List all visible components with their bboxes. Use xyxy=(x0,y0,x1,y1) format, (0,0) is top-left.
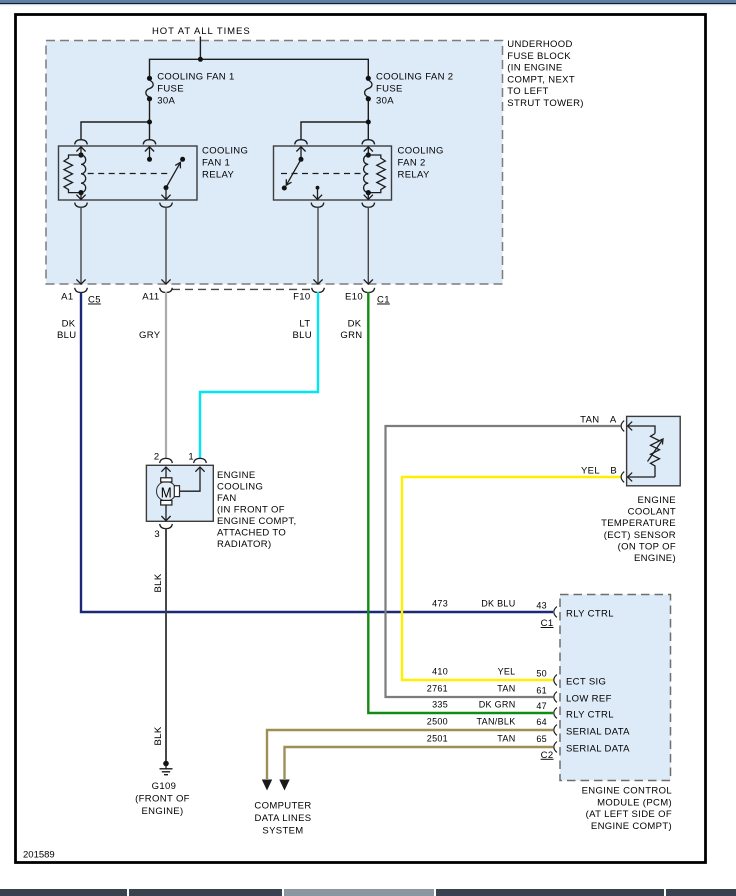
relay K2 mechanical link (dashed) xyxy=(281,173,364,175)
PCM pin 61 connector xyxy=(554,692,557,703)
svg-text:GRY: GRY xyxy=(139,330,161,341)
svg-text:43: 43 xyxy=(536,601,547,611)
svg-text:C1: C1 xyxy=(377,295,390,306)
wire 450 GRY: A11 to fan pin 2 xyxy=(165,292,167,458)
svg-text:30A: 30A xyxy=(376,96,394,107)
relay K1 mechanical link (dashed) xyxy=(88,173,170,175)
ECT sensor box xyxy=(627,416,681,485)
svg-text:2501: 2501 xyxy=(427,734,448,744)
svg-text:B: B xyxy=(610,466,617,477)
relay K1 switch xyxy=(180,157,185,162)
svg-text:COMPUTER: COMPUTER xyxy=(254,801,311,812)
svg-text:A1: A1 xyxy=(61,292,73,303)
PCM pin 47 connector xyxy=(554,708,557,719)
fuse F2: COOLING FAN 2 FUSE 30A xyxy=(366,76,371,81)
fuse block inner lower dashed segment xyxy=(172,288,312,290)
svg-text:LT: LT xyxy=(299,319,310,330)
svg-text:(IN ENGINE: (IN ENGINE xyxy=(507,63,562,74)
svg-text:2500: 2500 xyxy=(427,717,448,727)
svg-text:FAN: FAN xyxy=(217,493,237,504)
svg-text:30A: 30A xyxy=(157,96,175,107)
ECT sensor pin B connector xyxy=(621,472,624,483)
svg-text:SERIAL DATA: SERIAL DATA xyxy=(566,727,630,738)
svg-text:C2: C2 xyxy=(541,750,554,761)
svg-text:RLY CTRL: RLY CTRL xyxy=(566,710,614,721)
relay K2 coil to pin 85 xyxy=(367,193,369,199)
ground G109 xyxy=(163,761,169,767)
svg-text:BLK: BLK xyxy=(153,573,164,592)
svg-text:C1: C1 xyxy=(541,618,554,629)
wire 2761 TAN: ECT sensor A to PCM pin 61 xyxy=(386,426,621,697)
svg-text:TAN: TAN xyxy=(580,415,599,426)
bottom toolbar segments xyxy=(0,889,127,896)
wire: relay K1 pin85 to connector A1 xyxy=(80,207,82,284)
relay K2 pin 30 connector xyxy=(295,140,308,145)
relay K2 switch xyxy=(286,159,301,185)
wire: relay K2 pin85 to connector E10 xyxy=(367,207,369,284)
svg-text:UNDERHOOD: UNDERHOOD xyxy=(507,39,572,50)
relay K2 switch to pin 87 xyxy=(316,186,320,190)
svg-text:F10: F10 xyxy=(293,292,310,303)
underhood fuse block dashed box xyxy=(46,41,503,285)
svg-text:(IN FRONT OF: (IN FRONT OF xyxy=(217,505,285,516)
svg-text:ENGINE): ENGINE) xyxy=(634,553,676,564)
svg-text:TAN: TAN xyxy=(497,684,515,694)
svg-text:TO LEFT: TO LEFT xyxy=(507,86,548,97)
svg-text:3: 3 xyxy=(154,529,160,540)
fan pin 1 connector xyxy=(194,458,207,463)
svg-text:BLU: BLU xyxy=(57,330,77,341)
wire 410 YEL: ECT sensor B to PCM pin 50 xyxy=(402,477,620,680)
relay K2 coil connector xyxy=(362,140,375,145)
svg-text:COOLANT: COOLANT xyxy=(628,507,676,518)
svg-text:65: 65 xyxy=(536,734,547,744)
wire 350 BLK: fan pin 3 to ground xyxy=(165,528,167,761)
svg-text:TAN/BLK: TAN/BLK xyxy=(477,717,516,727)
arrow to computer data lines (right) xyxy=(279,780,289,791)
svg-text:(AT LEFT SIDE OF: (AT LEFT SIDE OF xyxy=(586,809,672,820)
svg-text:(ON TOP OF: (ON TOP OF xyxy=(618,541,676,552)
svg-text:COMPT, NEXT: COMPT, NEXT xyxy=(507,74,575,85)
svg-text:A11: A11 xyxy=(142,292,159,303)
svg-text:(FRONT OF: (FRONT OF xyxy=(135,794,190,805)
svg-text:61: 61 xyxy=(536,686,547,696)
relay K2 coil resistor xyxy=(368,155,385,193)
svg-text:ENGINE COMPT): ENGINE COMPT) xyxy=(591,821,672,832)
svg-text:STRUT TOWER): STRUT TOWER) xyxy=(507,98,584,109)
svg-text:64: 64 xyxy=(536,717,547,727)
svg-text:C5: C5 xyxy=(88,295,101,306)
relay K1 pin 30 connector xyxy=(143,140,156,145)
svg-text:DK GRN: DK GRN xyxy=(479,700,516,710)
svg-text:YEL: YEL xyxy=(498,667,516,677)
svg-text:RLY CTRL: RLY CTRL xyxy=(566,609,614,620)
PCM pin 65 connector xyxy=(554,742,557,753)
svg-text:DK: DK xyxy=(62,319,76,330)
svg-text:COOLING: COOLING xyxy=(217,482,263,493)
wire 335 DK GRN: E10 to PCM pin 47 xyxy=(368,292,553,713)
svg-text:COOLING: COOLING xyxy=(202,146,248,157)
svg-text:DK BLU: DK BLU xyxy=(481,599,515,609)
wire: relay 1 feed split xyxy=(81,122,150,140)
svg-text:50: 50 xyxy=(536,669,547,679)
svg-text:COOLING: COOLING xyxy=(398,146,444,157)
wire 2500 TAN/BLK: PCM pin 64 to data lines xyxy=(267,730,553,779)
ECT sensor pin A connector xyxy=(621,421,624,432)
svg-text:ENGINE: ENGINE xyxy=(637,495,676,506)
svg-text:ENGINE: ENGINE xyxy=(217,470,256,481)
svg-text:RELAY: RELAY xyxy=(202,170,235,181)
svg-text:SERIAL DATA: SERIAL DATA xyxy=(566,744,630,755)
svg-text:2: 2 xyxy=(154,452,160,463)
fan pin 3 xyxy=(165,505,167,521)
svg-text:DATA LINES: DATA LINES xyxy=(255,813,312,824)
svg-text:335: 335 xyxy=(432,700,448,710)
svg-text:COOLING FAN 1: COOLING FAN 1 xyxy=(157,72,234,83)
PCM dashed box: ENGINE CONTROL MODULE xyxy=(560,595,671,781)
svg-text:RADIATOR): RADIATOR) xyxy=(217,539,272,550)
fan motor M1 xyxy=(165,467,167,478)
svg-text:GRN: GRN xyxy=(340,330,362,341)
svg-text:ENGINE): ENGINE) xyxy=(141,806,183,817)
PCM pin 43 connector xyxy=(554,607,557,618)
svg-text:FUSE: FUSE xyxy=(157,84,184,95)
top browser chrome bar xyxy=(0,0,736,3)
arrow to computer data lines (left) xyxy=(262,780,272,791)
svg-text:TEMPERATURE: TEMPERATURE xyxy=(601,518,676,529)
svg-text:YEL: YEL xyxy=(581,466,600,477)
svg-text:COOLING FAN 2: COOLING FAN 2 xyxy=(376,72,453,83)
relay K2 coil xyxy=(366,152,371,157)
relay K1 coil resistor xyxy=(64,155,81,193)
svg-text:A: A xyxy=(610,415,617,426)
relay K1 pin 86 connector xyxy=(75,140,88,145)
svg-text:1: 1 xyxy=(188,452,194,463)
svg-text:2761: 2761 xyxy=(427,684,448,694)
svg-text:BLK: BLK xyxy=(153,726,164,745)
engine cooling fan box xyxy=(146,465,213,521)
svg-text:LOW REF: LOW REF xyxy=(566,694,612,705)
svg-text:E10: E10 xyxy=(345,292,363,303)
relay K1 coil to pin 85 xyxy=(76,195,85,200)
svg-text:BLU: BLU xyxy=(292,330,312,341)
svg-text:473: 473 xyxy=(432,599,448,609)
PCM pin 50 connector xyxy=(554,675,557,686)
svg-text:(ECT) SENSOR: (ECT) SENSOR xyxy=(604,530,676,541)
fan pin 2 connector xyxy=(160,458,173,463)
svg-text:HOT AT ALL TIMES: HOT AT ALL TIMES xyxy=(152,26,251,37)
svg-text:FAN 1: FAN 1 xyxy=(202,158,230,169)
svg-text:ENGINE COMPT,: ENGINE COMPT, xyxy=(217,516,297,527)
relay K1 box: COOLING FAN 1 RELAY xyxy=(59,146,198,200)
svg-text:M: M xyxy=(161,484,172,501)
PCM pin 64 connector xyxy=(554,725,557,736)
wire: top bus between fuses xyxy=(150,59,369,78)
ECT thermistor element xyxy=(628,426,655,434)
svg-text:ENGINE CONTROL: ENGINE CONTROL xyxy=(582,786,672,797)
svg-text:FUSE BLOCK: FUSE BLOCK xyxy=(507,51,571,62)
wire: relay 2 feed split xyxy=(301,122,368,140)
wire: battery feed from HOT label xyxy=(199,37,201,60)
svg-text:ATTACHED TO: ATTACHED TO xyxy=(217,528,286,539)
wire: relay K2 pin87 to connector F10 xyxy=(317,207,319,284)
svg-text:TAN: TAN xyxy=(497,734,515,744)
svg-text:201589: 201589 xyxy=(23,850,55,861)
fuse F1: COOLING FAN 1 FUSE 30A xyxy=(147,76,152,81)
svg-text:RELAY: RELAY xyxy=(398,170,431,181)
svg-text:FAN 2: FAN 2 xyxy=(398,158,426,169)
svg-text:MODULE (PCM): MODULE (PCM) xyxy=(597,797,672,808)
relay K2 box: COOLING FAN 2 RELAY xyxy=(274,146,392,200)
node: bus junction xyxy=(198,57,203,62)
wire 473 DK BLU: A1 to PCM pin 43 xyxy=(81,292,553,612)
wire 409 LT BLU: F10 to fan pin 1 xyxy=(200,292,318,458)
wire: relay K1 pin87 to connector A11 xyxy=(165,207,167,284)
svg-text:G109: G109 xyxy=(152,781,177,792)
relay K1 switch to pin 87 xyxy=(165,188,167,199)
svg-text:SYSTEM: SYSTEM xyxy=(262,826,303,837)
relay K1 coil xyxy=(78,152,83,157)
svg-text:410: 410 xyxy=(432,667,448,677)
svg-text:DK: DK xyxy=(348,319,362,330)
wire 2501 TAN: PCM pin 65 to data lines xyxy=(285,747,554,779)
svg-text:ECT SIG: ECT SIG xyxy=(566,677,606,688)
svg-text:47: 47 xyxy=(536,701,547,711)
svg-text:FUSE: FUSE xyxy=(376,84,403,95)
